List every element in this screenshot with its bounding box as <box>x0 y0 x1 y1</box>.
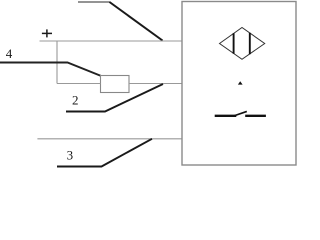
wire terminal 1 lead (top) <box>78 1 110 3</box>
wire vertical drop from + bus to resistor wire <box>56 41 58 84</box>
svg-text:2: 2 <box>72 92 79 107</box>
module enclosure box <box>182 2 296 166</box>
terminal 4 wire <box>0 63 101 76</box>
wire resistor to module <box>129 83 182 85</box>
terminal 2 label <box>72 92 79 107</box>
node + label <box>42 29 52 37</box>
terminal 3 wire <box>57 139 152 167</box>
resistor R (series resistor box) <box>101 76 130 93</box>
node minus bus line <box>37 138 182 140</box>
wire terminal 1 diagonal to + node <box>110 2 163 41</box>
svg-text:4: 4 <box>6 46 13 61</box>
bridge rectifier diode bar right <box>249 33 251 54</box>
svg-text:3: 3 <box>67 148 74 163</box>
terminal 4 label <box>6 46 13 61</box>
bridge rectifier diode bar left <box>233 33 235 54</box>
terminal 2 wire <box>66 84 163 112</box>
output switch left contact <box>215 115 237 117</box>
output switch right contact <box>245 115 266 117</box>
node + bus line <box>40 40 183 42</box>
bridge rectifier diamond outline <box>220 28 265 60</box>
output switch arm <box>234 111 247 116</box>
terminal 3 label <box>67 148 74 163</box>
sensor actuator arrow (tiny triangle) <box>238 81 243 84</box>
wire into resistor left <box>57 83 101 85</box>
